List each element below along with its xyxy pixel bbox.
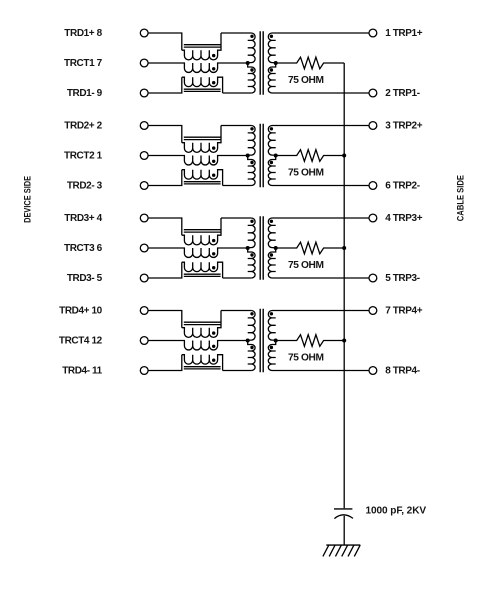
svg-text:TRD4+ 10: TRD4+ 10 xyxy=(59,306,102,317)
node T4 primary center tap xyxy=(246,339,250,343)
wire choke to T4 primary top xyxy=(221,310,251,312)
wire T3 secondary bottom to TRP3- xyxy=(272,277,369,279)
wire T4 secondary top to TRP4+ xyxy=(272,310,369,312)
transformer T3 xyxy=(248,216,276,280)
wire capacitor to ground xyxy=(343,516,345,545)
common-mode choke CM1 xyxy=(148,33,248,93)
wire T1 secondary bottom to TRP1- xyxy=(272,92,369,94)
resistor R2 75 OHM xyxy=(276,150,345,162)
wire T2 secondary top to TRP2+ xyxy=(272,125,369,127)
node TRP4- (cable pin) xyxy=(369,366,420,377)
svg-text:1 TRP1+: 1 TRP1+ xyxy=(385,28,423,39)
common-mode choke CM2 xyxy=(148,126,248,186)
svg-text:TRD2- 3: TRD2- 3 xyxy=(67,181,103,192)
svg-text:TRD3+ 4: TRD3+ 4 xyxy=(64,213,102,224)
node TRD2- (device pin) xyxy=(67,181,148,192)
wire common termination bus xyxy=(343,63,345,508)
wire T3 secondary top to TRP3+ xyxy=(272,217,369,219)
node TRD4- (device pin) xyxy=(62,366,148,377)
transformer T4 xyxy=(248,309,276,373)
svg-text:TRD1- 9: TRD1- 9 xyxy=(67,88,103,99)
wire TRD2- to choke xyxy=(148,170,182,186)
ground (chassis earth) xyxy=(323,545,360,556)
common-mode choke CM3 xyxy=(148,218,248,278)
resistor R1 75 OHM xyxy=(276,57,345,69)
node TRP4+ (cable pin) xyxy=(369,306,423,317)
node TRCT2 (device pin) xyxy=(64,151,148,162)
wire TRD4- to choke xyxy=(148,355,182,371)
wire TRD3+ to choke xyxy=(148,218,182,235)
wire TRD1+ to choke xyxy=(148,33,182,50)
node TRCT4 (device pin) xyxy=(59,336,148,347)
node T4 secondary center tap xyxy=(274,339,278,343)
node TRP1- (cable pin) xyxy=(369,88,420,99)
capacitor C1 1000 pF 2KV xyxy=(334,509,353,519)
wire choke to T2 primary top xyxy=(221,125,251,127)
svg-text:3 TRP2+: 3 TRP2+ xyxy=(385,121,423,132)
node T2 primary center tap xyxy=(246,154,250,158)
svg-text:1000 pF, 2KV: 1000 pF, 2KV xyxy=(366,505,427,516)
node T1 primary center tap xyxy=(246,61,250,65)
svg-text:TRCT4 12: TRCT4 12 xyxy=(59,336,103,347)
transformer T2 xyxy=(248,124,276,188)
svg-text:75 OHM: 75 OHM xyxy=(288,75,324,86)
wire T1 secondary top to TRP1+ xyxy=(272,32,369,34)
svg-text:TRD3- 5: TRD3- 5 xyxy=(67,273,103,284)
node TRCT1 (device pin) xyxy=(64,58,148,69)
svg-text:TRD1+ 8: TRD1+ 8 xyxy=(64,28,102,39)
node T3 primary center tap xyxy=(246,246,250,250)
svg-text:TRCT2 1: TRCT2 1 xyxy=(64,151,103,162)
node TRD2+ (device pin) xyxy=(64,121,148,132)
node TRP1+ (cable pin) xyxy=(369,28,423,39)
wire choke to T1 primary bottom xyxy=(223,92,252,94)
svg-text:8 TRP4-: 8 TRP4- xyxy=(385,366,420,377)
svg-text:TRCT1 7: TRCT1 7 xyxy=(64,58,103,69)
wire choke to T4 primary bottom xyxy=(223,370,252,372)
wire choke to T1 primary top xyxy=(221,32,251,34)
resistor R3 75 OHM xyxy=(276,242,345,254)
node T1 secondary center tap xyxy=(274,61,278,65)
node TRD4+ (device pin) xyxy=(59,306,148,317)
node TRCT3 (device pin) xyxy=(64,243,148,254)
wire choke to T2 primary bottom xyxy=(223,185,252,187)
svg-text:CABLE SIDE: CABLE SIDE xyxy=(456,175,466,221)
node TRD3+ (device pin) xyxy=(64,213,148,224)
common-mode choke CM4 xyxy=(148,311,248,371)
wire T2 secondary bottom to TRP2- xyxy=(272,185,369,187)
node TRD3- (device pin) xyxy=(67,273,148,284)
node R3 junction on bus xyxy=(342,246,346,250)
resistor R4 75 OHM xyxy=(276,335,345,347)
node TRD1+ (device pin) xyxy=(64,28,148,39)
node R4 junction on bus xyxy=(342,339,346,343)
node T3 secondary center tap xyxy=(274,246,278,250)
svg-text:6 TRP2-: 6 TRP2- xyxy=(385,181,420,192)
svg-text:2 TRP1-: 2 TRP1- xyxy=(385,88,420,99)
node TRP3- (cable pin) xyxy=(369,273,420,284)
transformer T1 xyxy=(248,31,276,95)
svg-text:7 TRP4+: 7 TRP4+ xyxy=(385,306,423,317)
node T2 secondary center tap xyxy=(274,154,278,158)
node R2 junction on bus xyxy=(342,154,346,158)
node TRP2+ (cable pin) xyxy=(369,121,423,132)
svg-text:75 OHM: 75 OHM xyxy=(288,353,324,364)
svg-text:75 OHM: 75 OHM xyxy=(288,168,324,179)
node TRD1- (device pin) xyxy=(67,88,148,99)
wire TRD1- to choke xyxy=(148,77,182,93)
wire TRD2+ to choke xyxy=(148,126,182,143)
svg-text:TRD2+ 2: TRD2+ 2 xyxy=(64,121,102,132)
node TRP2- (cable pin) xyxy=(369,181,420,192)
wire TRD3- to choke xyxy=(148,262,182,278)
wire TRD4+ to choke xyxy=(148,311,182,328)
wire choke to T3 primary top xyxy=(221,217,251,219)
svg-text:75 OHM: 75 OHM xyxy=(288,260,324,271)
svg-text:DEVICE SIDE: DEVICE SIDE xyxy=(22,176,32,223)
wire choke to T3 primary bottom xyxy=(223,277,252,279)
node TRP3+ (cable pin) xyxy=(369,213,423,224)
wire T4 secondary bottom to TRP4- xyxy=(272,370,369,372)
svg-text:4 TRP3+: 4 TRP3+ xyxy=(385,213,423,224)
svg-text:TRCT3 6: TRCT3 6 xyxy=(64,243,103,254)
svg-text:5 TRP3-: 5 TRP3- xyxy=(385,273,420,284)
svg-text:TRD4- 11: TRD4- 11 xyxy=(62,366,102,377)
